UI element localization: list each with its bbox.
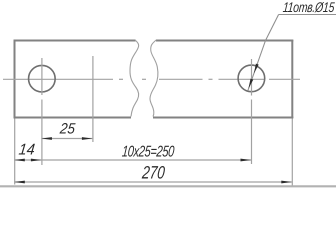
hole 1 circle	[29, 65, 56, 92]
horizontal centerline (axis) dashes	[3, 78, 113, 80]
leader slanted segment 1	[266, 15, 279, 41]
dimension line 270	[14, 181, 292, 183]
hole 11 circle	[238, 65, 265, 92]
bar top edge left segment	[14, 40, 136, 42]
hole 1 vertical centerline	[41, 58, 43, 95]
leader slanted segment 2 through hole 11	[248, 41, 266, 91]
svg-text:270: 270	[141, 164, 166, 183]
break line left (wavy)	[130, 41, 139, 117]
bar bottom edge right segment	[153, 117, 293, 119]
bar right edge	[291, 40, 293, 119]
bar top edge right segment	[156, 40, 293, 42]
leader shelf under callout text	[279, 14, 336, 16]
hole 2 vertical centerline	[92, 56, 94, 142]
dimension line 14 and 10x25=250	[14, 159, 251, 161]
arrow left of dim 25	[41, 137, 52, 140]
arrow right of dim 10x25=250	[241, 159, 252, 162]
break line right (wavy)	[150, 40, 158, 117]
svg-text:10x25=250: 10x25=250	[121, 143, 175, 160]
hole 11 vertical centerline	[251, 59, 253, 96]
arrow right of dim 25	[82, 137, 93, 140]
svg-text:14: 14	[18, 141, 36, 159]
dimension line 25	[41, 138, 92, 140]
arrow right of dim 14	[31, 159, 42, 162]
right extension line	[291, 119, 293, 187]
arrow left of dim 270	[14, 181, 24, 184]
svg-text:11отв.Ø15: 11отв.Ø15	[282, 0, 335, 16]
leader arrowhead B at lower circle crossing	[249, 79, 254, 89]
leader arrowhead A at upper circle crossing	[254, 64, 259, 74]
bar bottom edge left segment	[14, 117, 132, 119]
left extension line	[14, 119, 16, 185]
arrow left of dim 14	[14, 159, 24, 162]
arrow right of dim 270	[281, 181, 292, 184]
bottom frame border line	[0, 185, 336, 187]
bar left edge	[14, 40, 16, 119]
svg-text:25: 25	[58, 121, 76, 138]
